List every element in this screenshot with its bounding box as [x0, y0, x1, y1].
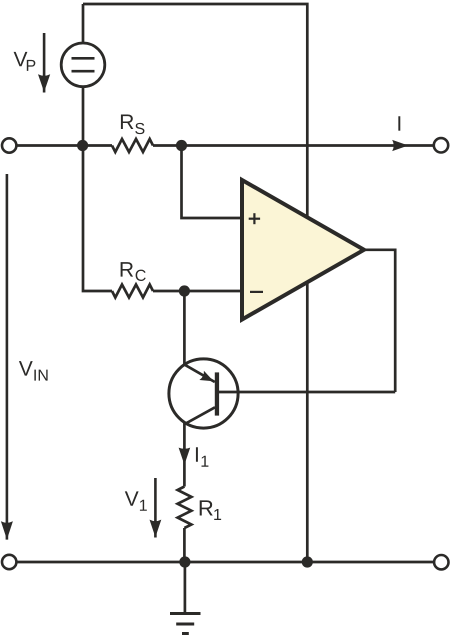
- label RS: [121, 115, 145, 135]
- wire collector down to R1: [183, 423, 186, 487]
- transistor base bar: [215, 372, 219, 415]
- transistor emitter arrow: [199, 371, 213, 382]
- wire RC to inverting input: [153, 290, 242, 293]
- terminal top-right: [434, 138, 448, 152]
- arrow V1: [150, 478, 162, 538]
- wire top rail left segment (terminal to RS): [17, 144, 112, 147]
- label VP: [14, 52, 36, 71]
- wire node B down and over to noninverting input: [182, 146, 243, 219]
- label I: [398, 116, 400, 130]
- label V1: [125, 491, 147, 510]
- transistor emitter lead: [184, 365, 214, 382]
- wire bottom rail: [17, 561, 433, 564]
- junction node D (R1 / ground / bottom rail): [179, 556, 190, 567]
- op-amp minus mark: [250, 291, 263, 293]
- transistor collector lead: [185, 407, 216, 424]
- transistor Q1 body: [169, 359, 238, 428]
- wire R1 to bottom rail: [183, 528, 186, 562]
- wire node A down and over to RC: [83, 146, 112, 292]
- junction node A (VP / RS / RC): [77, 140, 88, 151]
- wire VP bottom lead: [82, 87, 85, 146]
- op-amp plus mark: [249, 213, 260, 224]
- terminal top-left: [2, 138, 16, 152]
- label VIN: [19, 361, 48, 380]
- wire top rail right segment (RS to right terminal): [153, 144, 433, 147]
- resistor R1: [178, 487, 192, 529]
- wire VP top lead: [82, 4, 85, 43]
- arrow VP: [38, 33, 50, 93]
- label RC: [121, 262, 146, 281]
- ground: [170, 562, 201, 634]
- terminal bottom-right: [434, 555, 448, 569]
- wire transistor base to op-amp output: [218, 391, 395, 394]
- op-amp U1: [242, 180, 364, 320]
- current arrow I head on top rail: [392, 140, 408, 151]
- wire top rail from VP top over to right vertical net down to bottom rail: [83, 4, 307, 562]
- label I1: [196, 447, 208, 466]
- label R1: [200, 500, 221, 520]
- wire op-amp output right and down: [364, 250, 395, 392]
- wire node C down to transistor: [183, 291, 186, 365]
- junction node E (right net / bottom rail): [302, 556, 313, 567]
- junction node C (RC / -input / transistor): [179, 285, 190, 296]
- resistor RS: [112, 139, 153, 152]
- resistor RC: [112, 285, 153, 298]
- terminal bottom-left: [2, 555, 16, 569]
- junction node B (RS / +input): [176, 140, 187, 151]
- voltage source VP: [61, 43, 105, 87]
- current arrow I1 head: [179, 448, 191, 465]
- arrow VIN: [1, 174, 13, 540]
